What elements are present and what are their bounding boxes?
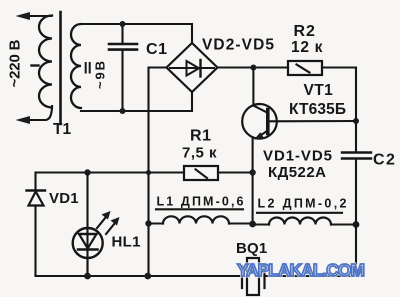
svg-text:~9В: ~9В — [93, 61, 108, 89]
mains arrow top — [16, 12, 52, 20]
svg-text:~220 В: ~220 В — [7, 39, 24, 87]
capacitor C2 — [342, 153, 371, 159]
svg-text:12 к: 12 к — [291, 39, 323, 56]
wire top rail — [81, 24, 192, 43]
svg-text:КТ635Б: КТ635Б — [289, 101, 346, 118]
svg-text:Т1: Т1 — [53, 121, 71, 138]
svg-text:L2 ДПМ-0,2: L2 ДПМ-0,2 — [258, 197, 347, 211]
svg-text:L1 ДПМ-0,6: L1 ДПМ-0,6 — [157, 195, 244, 209]
diode VD1 — [27, 173, 46, 277]
svg-text:BQ1: BQ1 — [236, 240, 267, 257]
node base tap — [353, 118, 359, 124]
watermark — [237, 260, 365, 280]
crystal BQ1 — [242, 258, 265, 295]
svg-text:R1: R1 — [190, 128, 212, 145]
svg-text:R2: R2 — [294, 23, 316, 40]
wire bottom rail — [36, 275, 243, 277]
mains arrow bottom — [16, 106, 53, 124]
inductor L2 — [253, 213, 356, 225]
node left rail bottom — [144, 273, 151, 280]
LED HL1 — [73, 173, 120, 277]
node emitter R1 — [249, 169, 255, 175]
svg-text:C2: C2 — [373, 152, 396, 169]
wire bridge right to R2 — [218, 66, 289, 68]
arrows — [97, 215, 108, 229]
node HL1 top — [84, 169, 90, 175]
node HL1 bottom — [84, 273, 91, 280]
node L1 L2 junction — [249, 221, 256, 228]
transformer T1 primary winding — [39, 16, 52, 108]
resistor R2 — [288, 61, 356, 75]
svg-text:YAPLAKAL.COM: YAPLAKAL.COM — [237, 260, 365, 280]
transformer T1 core — [59, 12, 62, 124]
label ~9В marks — [86, 63, 90, 73]
node L2 right — [353, 221, 360, 228]
node collector tap — [250, 65, 256, 71]
transformer T1 secondary winding — [71, 24, 81, 108]
wire R1 row — [36, 171, 184, 173]
svg-text:HL1: HL1 — [112, 234, 141, 251]
svg-text:VD2-VD5: VD2-VD5 — [202, 37, 274, 54]
capacitor C1 — [109, 24, 137, 111]
svg-text:C1: C1 — [146, 41, 168, 58]
diode bridge VD2-VD5 — [167, 43, 218, 92]
node bottom C1 — [120, 108, 126, 114]
wire bottom secondary rail — [81, 92, 192, 111]
wire right rail upper — [355, 68, 357, 152]
node L1 left — [145, 220, 151, 226]
wire right rail lower — [265, 160, 357, 277]
wire bridge left to rail — [149, 68, 167, 277]
transistor VT1 — [242, 68, 356, 225]
svg-text:VD1: VD1 — [49, 190, 79, 207]
node top C1 — [120, 21, 126, 27]
polarity dash — [32, 64, 39, 66]
resistor R1 — [184, 166, 218, 180]
svg-text:VD1-VD5: VD1-VD5 — [263, 148, 332, 165]
svg-text:КД522А: КД522А — [268, 164, 326, 181]
inductor L1 — [149, 209, 253, 223]
svg-text:VT1: VT1 — [304, 82, 334, 99]
svg-text:7,5 к: 7,5 к — [182, 145, 217, 162]
node R1 row left rail — [146, 170, 151, 175]
